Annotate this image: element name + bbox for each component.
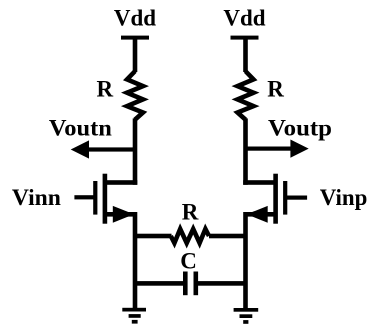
svg-text:Voutn: Voutn — [49, 116, 112, 141]
ground GND2 — [234, 308, 259, 324]
svg-text:Vinn: Vinn — [12, 185, 61, 210]
resistor R3 — [171, 229, 209, 243]
wire source to R3 (right) — [209, 234, 248, 239]
wire source to C1 (right) — [196, 281, 248, 286]
svg-text:R: R — [96, 77, 113, 102]
transistor M2 gate bar — [283, 181, 287, 215]
arrow M1 source (NMOS) — [113, 206, 134, 223]
wire Voutn arrow shaft — [84, 147, 135, 151]
power Vdd bar (right) — [231, 36, 259, 40]
wire R1 to drain node — [133, 118, 138, 184]
arrow Voutp head — [290, 140, 308, 158]
arrow M2 source (NMOS) — [247, 206, 268, 223]
transistor M1 gate bar — [93, 181, 97, 215]
capacitor C1 plate left — [183, 272, 188, 296]
wire M1 drain lead — [105, 180, 137, 185]
svg-text:Vdd: Vdd — [223, 6, 265, 31]
svg-text:R: R — [182, 200, 199, 225]
svg-text:C: C — [180, 248, 197, 273]
power Vdd bar (left) — [121, 36, 149, 40]
transistor M1 channel bar — [103, 174, 108, 224]
capacitor C1 plate right — [194, 272, 199, 296]
wire source node down to ground (left) — [133, 212, 138, 310]
resistor R1 — [127, 71, 143, 119]
wire R2 to drain node — [243, 118, 248, 184]
wire M2 drain lead — [243, 180, 275, 185]
wire source node down to ground (right) — [243, 212, 248, 310]
svg-text:R: R — [267, 76, 284, 101]
svg-text:Vinp: Vinp — [320, 185, 368, 210]
transistor M2 channel bar — [273, 174, 278, 224]
svg-text:Vdd: Vdd — [114, 6, 156, 31]
wire source to C1 (left) — [133, 281, 184, 286]
ground GND1 — [122, 308, 146, 324]
wire Voutp arrow shaft — [246, 147, 296, 151]
wire M1 source lead — [105, 212, 135, 217]
wire Vdd to R2 — [243, 37, 248, 73]
wire M1 gate lead — [74, 195, 94, 199]
wire source to R3 (left) — [133, 234, 172, 239]
wire Vdd to R1 — [133, 37, 138, 73]
arrow Voutn head — [71, 140, 89, 158]
svg-text:Voutp: Voutp — [268, 116, 332, 141]
wire M2 gate lead — [286, 196, 307, 200]
resistor R2 — [238, 71, 254, 119]
wire M2 source lead — [246, 212, 276, 217]
